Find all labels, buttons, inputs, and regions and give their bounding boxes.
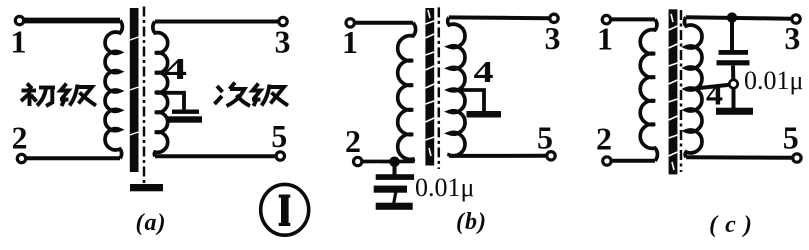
core bar texture speckles (a) <box>130 37 139 135</box>
wire: center tap 4 to ground (b) <box>450 90 484 111</box>
transformer core bar (a) <box>130 8 139 172</box>
wire: terminal 2 to primary bottom (c) <box>611 159 655 163</box>
capacitor C1 plate 1 (b) <box>376 174 414 180</box>
wire: secondary bottom to terminal 5 (b) <box>449 154 547 158</box>
wire: capacitor to ground stub (b) <box>394 192 396 203</box>
node 1 terminal (b) <box>346 19 354 27</box>
core bar texture speckles (c) <box>669 14 678 170</box>
wire: capacitor C2 to node 4 (c) <box>731 66 735 80</box>
svg-text:3: 3 <box>784 20 800 56</box>
svg-text:5: 5 <box>783 120 799 156</box>
svg-text:5: 5 <box>271 118 287 154</box>
wire: secondary bottom to terminal 5 (c) <box>686 155 792 160</box>
node 5 terminal (c) <box>793 154 801 162</box>
svg-text:4: 4 <box>706 77 723 112</box>
wire: junction to capacitor C2 (c) <box>730 18 734 51</box>
ground: capacitor ground bar (b) <box>376 203 413 210</box>
wire: secondary top to terminal 3 (b) <box>449 15 550 20</box>
label text ci (secondary, char 1) <box>215 83 251 107</box>
label text chu (primary, char 1) <box>21 84 55 107</box>
ground: core shield ground (a) <box>130 184 163 191</box>
svg-text:5: 5 <box>537 120 553 156</box>
wire: center tap 4 to ground (a) <box>156 93 184 110</box>
wire: secondary top to terminal 3 (a) <box>155 20 278 24</box>
svg-text:4: 4 <box>474 54 494 89</box>
wire: junction to capacitor (b) <box>393 162 397 175</box>
wire: secondary top to terminal 3 (c) <box>686 17 792 19</box>
capacitor C2 plate 1 (c) <box>719 50 749 55</box>
transformer core bar (c) <box>669 9 678 174</box>
core center dash-dot line (b) <box>438 7 441 169</box>
svg-text:(b): (b) <box>456 209 487 235</box>
core center dash-dot line (a) <box>143 7 146 185</box>
wire: terminal 2 to primary bottom (a) <box>25 156 120 160</box>
inductor secondary winding T2b <box>448 17 465 156</box>
core center dash-dot line (c) <box>680 10 683 172</box>
node 1 terminal (a) <box>15 16 23 24</box>
label text ji (primary, char 2) <box>60 84 96 107</box>
svg-text:2: 2 <box>596 121 612 157</box>
wire: secondary bottom to terminal 5 (a) <box>155 154 275 158</box>
inductor secondary winding T3b <box>684 17 702 157</box>
svg-text:0.01μ: 0.01μ <box>415 173 474 202</box>
svg-text:2: 2 <box>345 123 361 159</box>
capacitor C2 plate 2 (c) <box>717 60 750 65</box>
wire: center tap to node 4 (c) <box>686 85 730 90</box>
node 4 open terminal (c) <box>729 80 737 88</box>
inductor primary winding T1a <box>105 21 122 159</box>
ground: tap 4 ground lower bar (a) <box>168 116 202 122</box>
svg-text:(c): (c) <box>709 212 760 238</box>
svg-text:0.01μ: 0.01μ <box>744 66 803 95</box>
svg-text:2: 2 <box>12 120 28 156</box>
capacitor C1 plate 2 (b) <box>374 186 407 193</box>
node 5 terminal (a) <box>276 152 284 160</box>
junction dot capacitor tap (c) <box>727 12 737 22</box>
node 3 terminal (a) <box>279 17 287 25</box>
node 3 terminal (c) <box>792 15 800 23</box>
node 2 terminal (c) <box>603 157 611 165</box>
node 2 terminal (a) <box>17 154 25 162</box>
inductor primary winding T2a <box>362 23 416 162</box>
ground: node 4 ground bar (c) <box>716 108 753 115</box>
svg-text:1: 1 <box>597 21 613 57</box>
wire: node 4 to ground (c) <box>732 88 736 108</box>
wire: terminal 1 to primary top (c) <box>610 17 655 21</box>
ground: tap 4 ground bar (b) <box>467 111 502 118</box>
inductor secondary winding T1b <box>153 22 168 157</box>
core bar texture speckles (b) <box>425 10 434 156</box>
figure number badge circled 1 <box>261 184 309 235</box>
svg-text:3: 3 <box>545 20 561 56</box>
junction dot node 2 bus (b) <box>389 157 400 168</box>
node 1 terminal (c) <box>602 15 610 23</box>
node 5 terminal (b) <box>547 152 555 160</box>
svg-text:1: 1 <box>342 24 358 60</box>
svg-text:4: 4 <box>164 51 187 86</box>
label text ji (secondary, char 2) <box>252 84 288 107</box>
svg-text:(a): (a) <box>136 210 167 236</box>
inductor primary winding T3a <box>640 19 657 160</box>
wire: terminal 1 to primary top (a) <box>23 18 120 24</box>
transformer core bar (b) <box>425 8 434 166</box>
wire: terminal 1 to primary top (b) <box>354 21 413 25</box>
svg-text:1: 1 <box>11 24 27 60</box>
ground: tap 4 ground upper bar (a) <box>172 110 199 114</box>
node 2 terminal (b) <box>354 157 362 165</box>
svg-text:3: 3 <box>275 24 291 60</box>
node 3 terminal (b) <box>550 14 558 22</box>
